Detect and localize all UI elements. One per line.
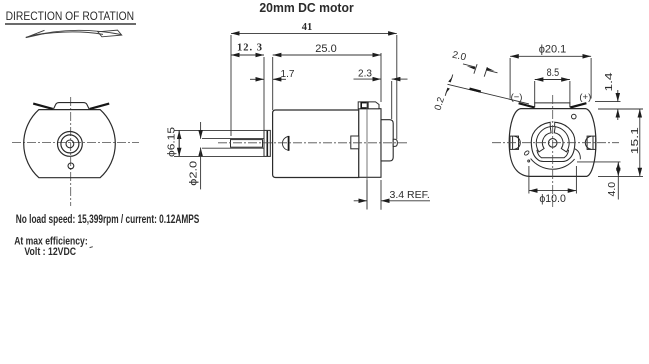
side view motor can <box>273 110 359 178</box>
front view boss outer circle <box>58 132 83 157</box>
dimension phi10.0 <box>529 166 577 194</box>
rear view ring arc right <box>554 127 569 152</box>
svg-text:8.5: 8.5 <box>547 67 560 79</box>
svg-text:3.4 REF.: 3.4 REF. <box>390 189 430 201</box>
side view bearing boss <box>381 120 393 161</box>
dimension phi6.15 <box>174 130 264 156</box>
dimension 25.0 <box>273 53 381 110</box>
svg-text:25.0: 25.0 <box>315 43 336 55</box>
rear view comma curve <box>575 149 580 160</box>
svg-text:12. 3: 12. 3 <box>237 43 263 54</box>
rear view recess top notch <box>550 122 555 127</box>
dimension 3.4 REF. <box>354 180 430 210</box>
rear view body outline <box>509 109 596 177</box>
svg-text:ϕ20.1: ϕ20.1 <box>539 44 567 56</box>
side view shaft <box>231 140 263 148</box>
rear view centerline horizontal <box>492 95 619 207</box>
side view rear shaft tip <box>393 139 397 146</box>
rear view bottom arc <box>531 159 575 170</box>
side view bushing <box>264 130 270 156</box>
side view centerline <box>218 142 408 144</box>
rotation arrow left head <box>26 30 46 37</box>
title: DIRECTION OF ROTATION <box>5 11 136 24</box>
side view bearing detail <box>282 136 288 150</box>
rear view small ellipse detail <box>524 150 530 156</box>
tiny mark after efficiency <box>90 246 93 249</box>
terminal plate profile <box>470 89 481 92</box>
rear view right ear <box>585 136 595 149</box>
svg-text:DIRECTION OF ROTATION: DIRECTION OF ROTATION <box>6 11 135 23</box>
svg-text:(+): (+) <box>579 92 591 103</box>
front view body outline <box>24 110 116 178</box>
rotation arrow right tail parallelogram <box>98 30 122 37</box>
rear view left ear <box>510 136 520 149</box>
side view endbell mid line <box>366 102 368 210</box>
rear view ring arc left <box>536 127 551 152</box>
side view endbell <box>359 109 381 178</box>
front view boss mid circle <box>61 135 79 153</box>
svg-text:41: 41 <box>302 22 313 33</box>
front view left terminal tick <box>33 104 53 109</box>
side view brush card top <box>358 102 379 109</box>
rear view recess outline <box>531 122 575 161</box>
dimension 8.5 <box>535 80 570 104</box>
dimension 1.4 <box>595 90 643 120</box>
dimension phi2.0 <box>201 122 264 189</box>
rear view left terminal <box>519 103 535 107</box>
dimension 12.3 <box>231 55 264 130</box>
rear view tiny dot <box>528 160 530 162</box>
dimension 2.3 <box>354 79 408 119</box>
rear view centerline vertical <box>552 95 554 207</box>
rear view magnet retainer U <box>537 150 569 158</box>
rear view raised brush card <box>532 103 572 107</box>
rear view center shaft circle <box>548 139 557 148</box>
svg-text:Volt : 12VDC: Volt : 12VDC <box>24 246 76 258</box>
side view brush card dark square <box>361 103 368 108</box>
dimension 1.7 <box>250 78 286 80</box>
dimension 2.0 with leader <box>448 64 530 104</box>
svg-text:ϕ6.15: ϕ6.15 <box>167 126 178 157</box>
dimension phi20.1 <box>510 56 591 98</box>
front view top tab <box>53 103 89 110</box>
side view left bump <box>351 136 359 149</box>
front view centerline vertical <box>70 97 72 206</box>
svg-text:1.4: 1.4 <box>604 72 615 92</box>
dimension 4.0 <box>577 162 621 200</box>
svg-text:ϕ2.0: ϕ2.0 <box>188 160 199 186</box>
svg-text:20mm DC motor: 20mm DC motor <box>259 1 353 15</box>
svg-text:ϕ10.0: ϕ10.0 <box>539 193 566 205</box>
svg-text:No load speed: 15,399rpm / cur: No load speed: 15,399rpm / current: 0.12… <box>16 213 200 226</box>
svg-text:4.0: 4.0 <box>607 181 618 196</box>
rear view small circle top right <box>572 114 577 119</box>
front view centerline horizontal <box>12 97 139 206</box>
svg-text:2.3: 2.3 <box>358 69 372 80</box>
dimension 15.1 <box>598 109 643 176</box>
svg-text:1.7: 1.7 <box>281 69 295 80</box>
front view right terminal tick <box>90 104 110 109</box>
dimension 41 <box>231 33 397 139</box>
front view small hole <box>68 163 74 169</box>
dimension 0.2 <box>445 75 453 96</box>
front view shaft circle <box>66 140 74 148</box>
svg-text:15.1: 15.1 <box>629 127 641 154</box>
rear view right terminal <box>570 103 586 107</box>
rotation arrow (curved double-line arc) <box>26 30 122 37</box>
